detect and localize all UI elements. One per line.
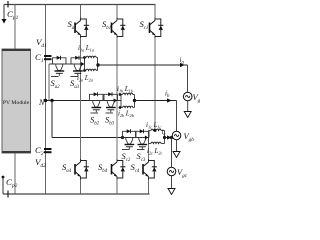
capacitor C1 bbox=[35, 52, 52, 64]
wire clamp c terminal bbox=[123, 137, 149, 139]
diode arrow clamp c bbox=[145, 136, 149, 140]
wire phase a output bbox=[98, 64, 188, 66]
wire leg a middle bbox=[80, 38, 82, 159]
wire bar c left bbox=[148, 131, 150, 144]
wire to Vga bbox=[187, 65, 189, 92]
wire leg b middle bbox=[116, 38, 118, 159]
label Sc3 bbox=[137, 150, 146, 164]
junction dot c top bbox=[154, 129, 157, 132]
wire Vga to ground bbox=[187, 101, 189, 112]
wire leg c upper bbox=[154, 5, 156, 18]
wire clamp b terminal bbox=[90, 100, 122, 102]
wire leg a upper bbox=[80, 5, 82, 18]
capacitor C2 bbox=[35, 145, 52, 157]
current arrow ic bbox=[167, 135, 171, 139]
wire to Vgc bbox=[171, 138, 173, 168]
wire leg c lower-middle bbox=[148, 144, 150, 160]
wire phase c output bbox=[165, 137, 172, 139]
capacitor Cp2 bbox=[2, 176, 18, 198]
capacitor Cp1 bbox=[2, 1, 19, 24]
wire PV- to bottom bus bbox=[14, 153, 16, 194]
junction dot b bottom bbox=[119, 106, 122, 109]
transistor Sb4 bbox=[112, 159, 126, 180]
wire leg c lower bbox=[148, 180, 150, 195]
wire bar a left bbox=[84, 58, 86, 71]
PV module bbox=[2, 49, 31, 153]
wire bar c right bbox=[164, 131, 166, 144]
wire N line to phase b bbox=[46, 100, 90, 102]
source Vgc bbox=[167, 167, 176, 176]
transistor Sc1 bbox=[150, 18, 164, 39]
label Sa3 bbox=[70, 77, 80, 91]
junction dot a top bbox=[83, 56, 86, 59]
transistor Sc4 bbox=[143, 159, 157, 180]
label Sc2 bbox=[122, 150, 131, 164]
wire leg c upper-middle bbox=[154, 38, 156, 131]
current arrow ib bbox=[167, 98, 172, 102]
label Sb2 bbox=[90, 113, 100, 127]
inductor L2a bbox=[85, 70, 87, 72]
junction dot c out bbox=[163, 136, 166, 139]
transistor Sb1 bbox=[112, 18, 126, 39]
junction dot a bottom bbox=[83, 69, 86, 72]
wire leg b lower bbox=[116, 180, 118, 195]
wire bar a right bbox=[97, 58, 99, 71]
transistor Sa4 bbox=[75, 159, 89, 180]
wire PV+ to top bus bbox=[14, 5, 16, 50]
switch Sa3 (clamp) bbox=[71, 56, 85, 76]
inductor L1a bbox=[85, 57, 87, 59]
svg-text:N: N bbox=[38, 98, 45, 107]
label Sa2 bbox=[51, 77, 61, 91]
wire Vgb to ground bbox=[176, 140, 178, 152]
wire DC-link rail bbox=[45, 5, 47, 195]
inductor L2c bbox=[149, 143, 151, 145]
inductor L1b bbox=[121, 94, 123, 96]
wire N riser phase a bbox=[48, 64, 50, 101]
source Vga bbox=[183, 92, 192, 101]
wire to Vgb bbox=[176, 101, 178, 132]
switch Sc3 (clamp) bbox=[136, 129, 150, 149]
transistor Sa1 bbox=[75, 18, 89, 39]
label Sb3 bbox=[105, 113, 115, 127]
switch Sa2 (clamp) bbox=[53, 56, 67, 76]
wire bar b left bbox=[120, 95, 122, 108]
switch Sb2 (clamp) bbox=[90, 92, 104, 112]
diode arrow clamp b bbox=[114, 99, 118, 103]
wire phase b output bbox=[135, 100, 177, 102]
current arrow ia bbox=[180, 63, 185, 67]
wire top DC+ bus bbox=[4, 4, 156, 6]
junction dot node Nc bbox=[121, 136, 124, 139]
diode arrow clamp a bbox=[81, 62, 85, 66]
wire N riser phase c bbox=[52, 101, 123, 138]
wire bottom DC- bus bbox=[3, 193, 150, 195]
junction dot b top bbox=[119, 93, 122, 96]
source Vgb bbox=[172, 131, 181, 140]
wire clamp a terminal bbox=[49, 63, 85, 65]
ground Vgb bbox=[173, 152, 180, 158]
wire Vgc to ground bbox=[171, 176, 173, 189]
switch Sc2 (clamp) bbox=[123, 129, 137, 149]
junction dot c corner bbox=[170, 136, 173, 139]
ground Vgc bbox=[168, 189, 175, 195]
ground Vga bbox=[184, 112, 191, 118]
wire leg b upper bbox=[116, 5, 118, 18]
junction dot b out bbox=[133, 99, 136, 102]
inductor L1c bbox=[149, 130, 151, 132]
switch Sb3 (clamp) bbox=[104, 92, 118, 112]
wire bar b right bbox=[134, 95, 136, 108]
junction dot a out bbox=[96, 63, 99, 66]
svg-text:PV Module: PV Module bbox=[3, 100, 30, 106]
inductor L2b bbox=[121, 107, 123, 109]
wire leg a lower bbox=[80, 180, 82, 195]
